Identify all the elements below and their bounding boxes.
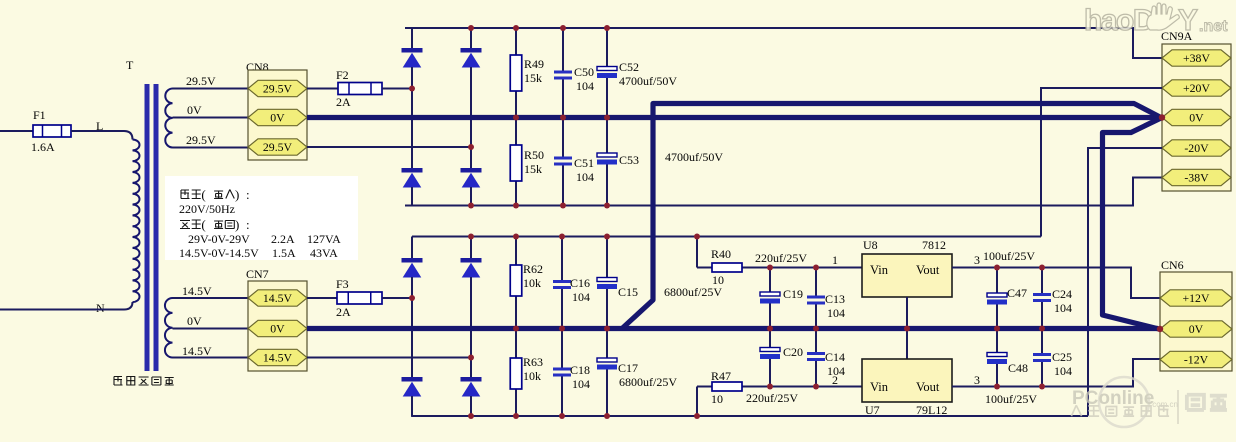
svg-text:4700uf/50V: 4700uf/50V — [619, 74, 677, 88]
svg-text:Vin: Vin — [870, 263, 889, 277]
svg-text:0V: 0V — [187, 103, 202, 117]
resistor R49 — [510, 28, 522, 117]
diode D2 top-right — [461, 48, 482, 68]
svg-text:1.5A: 1.5A — [272, 246, 296, 260]
capacitor C51 — [554, 117, 572, 206]
capacitor C13 — [807, 268, 825, 329]
capacitor C50 — [554, 28, 572, 117]
svg-text:R47: R47 — [711, 369, 731, 383]
wire D8 to rail — [470, 396, 472, 417]
junction dot CN9A 0V — [1159, 114, 1165, 120]
svg-text:): ) — [235, 187, 239, 202]
svg-text:10k: 10k — [523, 369, 541, 383]
wire U8 ground — [906, 297, 908, 359]
transformer secondary winding upper — [165, 89, 172, 148]
svg-text:6800uf/25V: 6800uf/25V — [619, 375, 677, 389]
junction dot F2 bridge — [409, 86, 415, 92]
wire D2 to D4 — [470, 67, 472, 168]
pin CN8 0V — [248, 109, 307, 125]
wire -20V to CN9A — [1088, 148, 1162, 416]
svg-text:U7: U7 — [865, 403, 880, 417]
svg-text:F2: F2 — [336, 68, 349, 82]
wire lower bridge right branch — [470, 237, 472, 259]
pin CN8 29.5V bottom — [248, 139, 307, 155]
svg-text:104: 104 — [827, 364, 845, 378]
junction dots top rail — [468, 25, 474, 31]
svg-text:CN7: CN7 — [246, 267, 269, 281]
svg-text:3: 3 — [974, 373, 980, 387]
svg-text:C20: C20 — [783, 345, 803, 359]
diode D8 lower-right — [461, 377, 482, 397]
wire D5 to D7 — [411, 277, 413, 377]
svg-text:7812: 7812 — [922, 238, 946, 252]
svg-text:1.6A: 1.6A — [31, 140, 55, 154]
wire tap 14.5V lower — [173, 357, 249, 359]
resistor R40 — [696, 237, 698, 268]
wire F2 to bridge — [382, 88, 412, 90]
svg-text:10: 10 — [712, 273, 724, 287]
capacitor C47 — [987, 268, 1007, 329]
svg-text:220V/50Hz: 220V/50Hz — [179, 202, 235, 216]
diode D6 upper-right — [461, 258, 482, 278]
svg-text:+12V: +12V — [1183, 291, 1210, 305]
svg-text::: : — [246, 217, 250, 232]
wire N mains return — [0, 302, 133, 310]
svg-text:4700uf/50V: 4700uf/50V — [665, 150, 723, 164]
svg-text:R63: R63 — [523, 355, 543, 369]
svg-text:F1: F1 — [33, 108, 46, 122]
junction dots 0V bus lower — [513, 326, 519, 332]
wire 0V bus CN8 to CN9A — [307, 115, 1160, 120]
svg-text:29.5V: 29.5V — [263, 140, 293, 154]
svg-text:C24: C24 — [1052, 287, 1072, 301]
wire CN8 pin1 to F2 — [307, 88, 338, 90]
wire top bridge right branch — [470, 28, 472, 48]
capacitor C17 — [597, 329, 617, 417]
svg-text:104: 104 — [1054, 364, 1072, 378]
svg-text:-38V: -38V — [1184, 171, 1209, 185]
resistor R50 — [510, 117, 522, 206]
wire -40V bottom rail — [405, 178, 1162, 206]
svg-text:U8: U8 — [863, 238, 878, 252]
svg-text:C14: C14 — [825, 350, 845, 364]
pin CN7 14.5V top — [248, 290, 307, 306]
svg-text:3: 3 — [974, 253, 980, 267]
svg-text:C19: C19 — [783, 287, 803, 301]
svg-text:R40: R40 — [711, 247, 731, 261]
svg-text:R49: R49 — [524, 57, 544, 71]
transformer core — [145, 84, 150, 371]
capacitor C18 — [553, 329, 571, 417]
svg-text:14.5V: 14.5V — [182, 284, 212, 298]
junction dots 0V bus top — [513, 115, 519, 121]
wire +20V rail lower bridge — [412, 236, 1041, 238]
svg-text:R62: R62 — [523, 262, 543, 276]
svg-text:): ) — [235, 217, 239, 232]
label secondary output (CJK) — [180, 220, 234, 229]
svg-text:2A: 2A — [336, 95, 351, 109]
wire -20V bottom rail — [412, 415, 1088, 417]
pin CN6 0V — [1160, 321, 1232, 337]
svg-text:79L12: 79L12 — [916, 403, 947, 417]
diode D3 bottom-left — [402, 168, 423, 188]
svg-text:C15: C15 — [618, 285, 638, 299]
connector CN6 — [1160, 272, 1232, 371]
connector CN7 — [248, 281, 307, 371]
wire tap to bridge right branch — [307, 146, 471, 148]
svg-text:15k: 15k — [524, 162, 542, 176]
capacitor C15 — [597, 237, 617, 329]
svg-text:15k: 15k — [524, 71, 542, 85]
svg-text:Vin: Vin — [870, 380, 889, 394]
pin CN9A -38V — [1162, 169, 1231, 185]
connector CN8 — [248, 70, 307, 160]
wire tap 29.5V lower — [173, 147, 249, 149]
fuse F3 — [337, 292, 382, 304]
svg-text:104: 104 — [572, 377, 590, 391]
regulator U7 79L12 — [862, 359, 952, 402]
wire 0V bus lower CN7 to CN6 — [307, 326, 1158, 331]
svg-text:C17: C17 — [618, 361, 638, 375]
svg-text:R50: R50 — [524, 148, 544, 162]
svg-text:100uf/25V: 100uf/25V — [983, 249, 1035, 263]
junction dots U7 Vin line — [767, 384, 773, 390]
label toroidal transformer (CJK) — [114, 377, 174, 386]
svg-text:0V: 0V — [270, 322, 285, 336]
regulator U8 7812 — [862, 254, 952, 297]
wire tap to lower bridge right branch — [307, 357, 471, 359]
svg-text:C48: C48 — [1008, 361, 1028, 375]
diode D4 bottom-right — [461, 168, 482, 188]
label primary input (CJK) — [181, 190, 234, 199]
diode D7 lower-left — [402, 377, 423, 397]
svg-text:104: 104 — [1054, 301, 1072, 315]
wire tap 0V upper — [173, 117, 249, 119]
wire R40 to U8 Vin — [770, 267, 862, 269]
svg-text:0V: 0V — [270, 111, 285, 125]
svg-text:2.2A: 2.2A — [271, 232, 295, 246]
svg-text:C50: C50 — [574, 65, 594, 79]
resistor R62 — [510, 237, 522, 329]
wire tap 0V lower — [173, 328, 249, 330]
svg-text:C53: C53 — [619, 153, 639, 167]
svg-text:Vout: Vout — [916, 263, 940, 277]
svg-text:(: ( — [201, 187, 205, 202]
svg-text:F3: F3 — [336, 277, 349, 291]
svg-text:C18: C18 — [570, 363, 590, 377]
svg-text:C16: C16 — [570, 276, 590, 290]
wire U7 Vout -12V rail — [952, 359, 1162, 387]
wire F3 to lower bridge — [382, 297, 412, 299]
watermark PConline forum — [1071, 377, 1227, 427]
svg-text:10: 10 — [711, 392, 723, 406]
svg-text:104: 104 — [576, 170, 594, 184]
pin CN9A -20V — [1162, 140, 1231, 156]
svg-text:Y: Y — [1178, 4, 1198, 37]
svg-text:220uf/25V: 220uf/25V — [755, 251, 807, 265]
junction dot F3 bridge — [409, 295, 415, 301]
pin CN8 29.5V top — [248, 80, 307, 96]
junction dots U8 Vin line — [767, 265, 773, 271]
pin CN9A +20V — [1162, 80, 1231, 96]
svg-text:220uf/25V: 220uf/25V — [746, 391, 798, 405]
wire +40V top rail — [405, 28, 1162, 58]
wire 0V bus riser — [622, 104, 1161, 329]
svg-text:C52: C52 — [619, 60, 639, 74]
svg-text:+20V: +20V — [1183, 81, 1210, 95]
transformer primary winding — [133, 140, 140, 303]
svg-text:29.5V: 29.5V — [263, 82, 293, 96]
pin CN9A +38V — [1162, 50, 1231, 66]
pin CN6 +12V — [1160, 290, 1232, 306]
svg-text:2A: 2A — [336, 305, 351, 319]
capacitor C48 — [987, 329, 1007, 387]
fuse F1 — [33, 125, 71, 137]
resistor R47 — [696, 387, 698, 417]
svg-text:-12V: -12V — [1184, 353, 1209, 367]
wire R47 to U7 Vin — [770, 386, 862, 388]
svg-text::: : — [246, 187, 250, 202]
wire D1 to D3 — [411, 67, 413, 168]
svg-text:-20V: -20V — [1184, 141, 1209, 155]
wire L mains input — [0, 130, 33, 132]
diode D5 upper-left — [402, 258, 423, 278]
junction dots +12V rail — [994, 265, 1000, 271]
junction dot CN6 0V — [1157, 326, 1163, 332]
wire lower bridge left branch — [411, 237, 413, 259]
pin CN7 14.5V bottom — [248, 349, 307, 365]
junction dot tap lower bridge right — [468, 355, 474, 361]
fuse F2 — [338, 83, 382, 95]
wire D4 to rail — [470, 187, 472, 206]
pin CN6 -12V — [1160, 351, 1232, 367]
capacitor C14 — [807, 329, 825, 387]
junction dots -40V rail — [468, 203, 474, 209]
svg-text:43VA: 43VA — [310, 246, 338, 260]
svg-text:29.5V: 29.5V — [186, 133, 216, 147]
info text white panel — [165, 176, 358, 260]
junction dots +20V rail — [468, 234, 474, 240]
wire F1 to primary — [71, 131, 133, 140]
capacitor C19 — [760, 268, 780, 329]
svg-text:104: 104 — [827, 306, 845, 320]
svg-text:127VA: 127VA — [307, 232, 341, 246]
wire U8 Vout +12V rail — [952, 268, 1162, 299]
wire tap 29.5V upper — [173, 88, 249, 90]
svg-text:14.5V-0V-14.5V: 14.5V-0V-14.5V — [179, 246, 259, 260]
svg-text:C25: C25 — [1052, 350, 1072, 364]
svg-text:0V: 0V — [187, 314, 202, 328]
svg-text:6800uf/25V: 6800uf/25V — [664, 285, 722, 299]
svg-text:10k: 10k — [523, 276, 541, 290]
svg-text:C47: C47 — [1007, 286, 1027, 300]
svg-text:N: N — [96, 301, 105, 315]
capacitor C20 — [760, 329, 780, 387]
svg-text:C51: C51 — [574, 156, 594, 170]
junction dots bottom rail — [468, 413, 474, 419]
transformer secondary winding lower — [165, 298, 173, 358]
wire CN7 pin1 to F3 — [307, 297, 337, 299]
capacitor C24 — [1033, 268, 1051, 329]
svg-text:CN6: CN6 — [1161, 258, 1184, 272]
wire tap 14.5V upper — [173, 297, 249, 299]
svg-text:haoD: haoD — [1084, 4, 1154, 37]
svg-text:14.5V: 14.5V — [263, 291, 293, 305]
svg-text:104: 104 — [576, 79, 594, 93]
svg-text:29V-0V-29V: 29V-0V-29V — [188, 232, 250, 246]
svg-text:(: ( — [201, 217, 205, 232]
svg-text:L: L — [96, 119, 103, 133]
connector CN9A — [1162, 44, 1231, 191]
wire D6 to D8 — [470, 277, 472, 377]
capacitor C25 — [1033, 329, 1051, 387]
capacitor C53 — [597, 117, 617, 206]
wire D3 to rail — [411, 187, 413, 206]
wire 0V bus CN9A to CN6 — [1103, 118, 1162, 329]
capacitor C16 — [553, 237, 571, 329]
svg-text:C13: C13 — [825, 292, 845, 306]
svg-text:+38V: +38V — [1183, 51, 1210, 65]
pin CN9A 0V — [1162, 109, 1231, 125]
svg-text:14.5V: 14.5V — [263, 351, 293, 365]
capacitor C52 — [597, 28, 617, 117]
svg-text:14.5V: 14.5V — [182, 344, 212, 358]
svg-text:29.5V: 29.5V — [186, 74, 216, 88]
wire D7 to rail — [411, 396, 413, 417]
svg-text:100uf/25V: 100uf/25V — [985, 392, 1037, 406]
svg-text:0V: 0V — [1189, 322, 1204, 336]
svg-text:.net: .net — [1199, 18, 1228, 35]
svg-text:Vout: Vout — [916, 380, 940, 394]
resistor R63 — [510, 329, 522, 417]
svg-text:1: 1 — [832, 253, 838, 267]
diode D1 top-left — [402, 48, 423, 68]
wire top bridge left branch — [411, 28, 413, 48]
svg-text:104: 104 — [572, 290, 590, 304]
junction dot tap bridge right — [468, 144, 474, 150]
svg-text:0V: 0V — [1189, 111, 1204, 125]
svg-text:T: T — [126, 58, 134, 72]
wire +20V to CN9A — [1041, 88, 1162, 237]
pin CN7 0V — [248, 320, 307, 336]
watermark haoDIY.net — [1084, 3, 1228, 37]
junction dots -12V rail — [994, 384, 1000, 390]
